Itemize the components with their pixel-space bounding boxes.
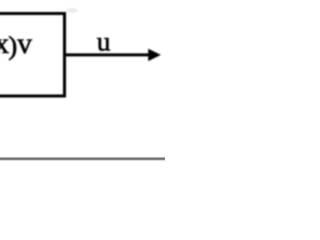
svg-text:v: v: [17, 28, 32, 60]
svg-text:u: u: [97, 26, 111, 57]
arrowhead: [148, 49, 161, 61]
svg-text:): ): [8, 30, 17, 60]
horizontal rule (gray): [0, 158, 169, 161]
wire u (output arrow shaft): [65, 53, 151, 56]
smudge artifact near box corner: [66, 8, 78, 13]
block B1 (cropped state-equation box): [0, 14, 65, 97]
